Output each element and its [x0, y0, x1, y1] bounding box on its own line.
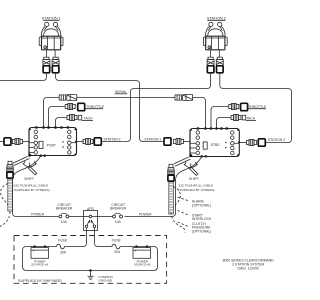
svg-text:SHIFT: SHIFT	[189, 177, 199, 181]
svg-text:SHIFT: SHIFT	[24, 177, 34, 181]
svg-text:INTERLOCK: INTERLOCK	[192, 217, 212, 221]
svg-text:BREAKER: BREAKER	[110, 207, 127, 211]
svg-text:(SUPPLIED BY OTHERS): (SUPPLIED BY OTHERS)	[14, 188, 50, 192]
svg-text:STBD: STBD	[211, 143, 221, 147]
svg-text:THROTTLE: THROTTLE	[248, 105, 267, 109]
svg-text:10A: 10A	[115, 220, 122, 224]
svg-text:(OPTIONAL): (OPTIONAL)	[192, 203, 211, 207]
svg-text:SUPPLIED BY SHIPYARD: SUPPLIED BY SHIPYARD	[18, 279, 62, 283]
svg-text:THROTTLE: THROTTLE	[86, 105, 105, 109]
svg-text:30A: 30A	[114, 250, 121, 254]
svg-text:STATION 1: STATION 1	[42, 16, 61, 20]
svg-text:FUSE: FUSE	[58, 239, 68, 243]
svg-text:APS: APS	[87, 207, 95, 211]
svg-text:FUSE: FUSE	[112, 239, 122, 243]
svg-text:TACH: TACH	[246, 117, 256, 121]
svg-text:SOURCE #1: SOURCE #1	[31, 263, 48, 267]
svg-text:33C PUSH/PULL CABLE: 33C PUSH/PULL CABLE	[179, 183, 214, 187]
svg-text:(OPTIONAL): (OPTIONAL)	[192, 229, 211, 233]
svg-text:(SUPPLIED BY OTHERS): (SUPPLIED BY OTHERS)	[179, 188, 215, 192]
svg-text:DWG. 122400: DWG. 122400	[237, 266, 259, 270]
svg-text:30A: 30A	[60, 251, 67, 255]
svg-text:STATION 2: STATION 2	[207, 16, 226, 20]
svg-text:STATION 2: STATION 2	[268, 138, 285, 142]
svg-text:SOURCE #2: SOURCE #2	[134, 263, 151, 267]
svg-text:POWER: POWER	[139, 212, 152, 216]
svg-text:STATION 2: STATION 2	[103, 137, 120, 141]
svg-text:33C PUSH/PULL CABLE: 33C PUSH/PULL CABLE	[14, 183, 49, 187]
svg-text:PORT: PORT	[47, 143, 56, 147]
svg-text:TACH: TACH	[84, 117, 94, 121]
svg-text:BREAKER: BREAKER	[56, 207, 73, 211]
svg-text:SERIAL: SERIAL	[115, 90, 127, 94]
svg-text:POWER: POWER	[31, 212, 44, 216]
svg-text:GROUND: GROUND	[98, 279, 113, 283]
svg-text:10A: 10A	[61, 220, 68, 224]
svg-text:STATION 1: STATION 1	[144, 137, 161, 141]
